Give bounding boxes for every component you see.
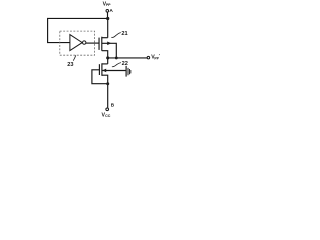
svg-text:PP: PP xyxy=(106,3,111,7)
svg-text:23: 23 xyxy=(67,62,73,68)
svg-text:21: 21 xyxy=(121,31,127,37)
svg-text:22: 22 xyxy=(122,61,128,67)
svg-text:A: A xyxy=(109,8,113,14)
svg-text:CC: CC xyxy=(105,114,111,118)
svg-text:′: ′ xyxy=(159,53,160,58)
